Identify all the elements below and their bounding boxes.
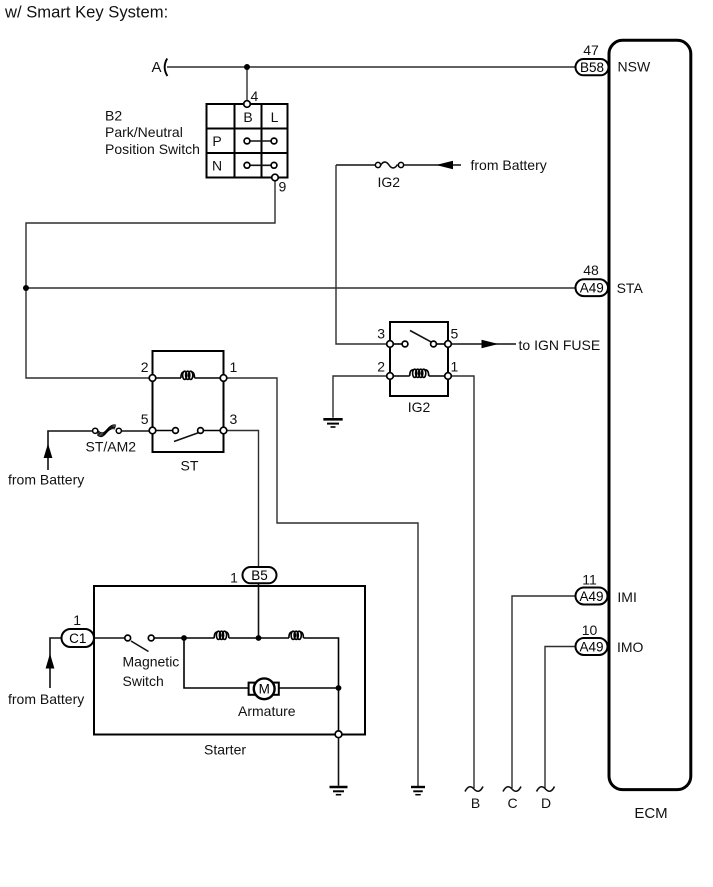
svg-text:3: 3 <box>377 326 385 342</box>
svg-text:2: 2 <box>141 359 149 375</box>
svg-text:1: 1 <box>230 359 238 375</box>
svg-text:Switch: Switch <box>123 673 164 689</box>
svg-text:Position Switch: Position Switch <box>105 141 200 157</box>
svg-text:B58: B58 <box>580 60 604 75</box>
svg-text:D: D <box>541 795 551 811</box>
svg-text:Park/Neutral: Park/Neutral <box>105 124 183 140</box>
svg-text:47: 47 <box>583 42 599 58</box>
svg-text:IG2: IG2 <box>378 174 401 190</box>
svg-text:3: 3 <box>230 411 238 427</box>
svg-text:A49: A49 <box>579 639 603 654</box>
svg-text:A49: A49 <box>579 589 603 604</box>
svg-text:IG2: IG2 <box>408 399 431 415</box>
svg-text:1: 1 <box>73 612 81 628</box>
svg-text:to IGN FUSE: to IGN FUSE <box>519 337 601 353</box>
svg-text:ECM: ECM <box>634 805 667 822</box>
svg-text:5: 5 <box>451 326 459 342</box>
svg-text:L: L <box>271 109 279 125</box>
svg-text:1: 1 <box>230 570 238 586</box>
svg-text:9: 9 <box>279 178 287 194</box>
svg-text:from Battery: from Battery <box>471 157 547 173</box>
svg-text:4: 4 <box>251 88 259 104</box>
svg-text:1: 1 <box>451 359 459 375</box>
svg-text:P: P <box>212 133 221 149</box>
svg-text:from Battery: from Battery <box>8 471 84 487</box>
svg-text:STA: STA <box>617 280 644 296</box>
svg-text:Armature: Armature <box>238 703 296 719</box>
svg-text:N: N <box>212 157 222 173</box>
svg-text:w/ Smart Key System:: w/ Smart Key System: <box>4 3 168 22</box>
svg-text:IMI: IMI <box>617 589 636 605</box>
svg-text:C1: C1 <box>69 631 86 646</box>
svg-text:IMO: IMO <box>617 639 644 655</box>
svg-text:ST: ST <box>181 457 199 473</box>
svg-text:B2: B2 <box>105 107 122 123</box>
svg-text:A49: A49 <box>580 281 604 296</box>
svg-text:C: C <box>507 795 517 811</box>
svg-text:Magnetic: Magnetic <box>123 654 180 670</box>
svg-text:2: 2 <box>377 359 385 375</box>
svg-text:B: B <box>471 795 480 811</box>
svg-text:10: 10 <box>582 622 598 638</box>
svg-text:ST/AM2: ST/AM2 <box>86 438 137 454</box>
svg-text:B5: B5 <box>251 568 268 583</box>
svg-text:NSW: NSW <box>618 58 651 74</box>
svg-text:48: 48 <box>583 262 599 278</box>
svg-text:B: B <box>243 109 252 125</box>
svg-text:M: M <box>259 682 270 697</box>
svg-text:11: 11 <box>582 571 597 587</box>
svg-text:Starter: Starter <box>204 742 246 758</box>
svg-text:5: 5 <box>141 411 149 427</box>
svg-text:from Battery: from Battery <box>8 691 84 707</box>
svg-text:A: A <box>152 59 162 76</box>
